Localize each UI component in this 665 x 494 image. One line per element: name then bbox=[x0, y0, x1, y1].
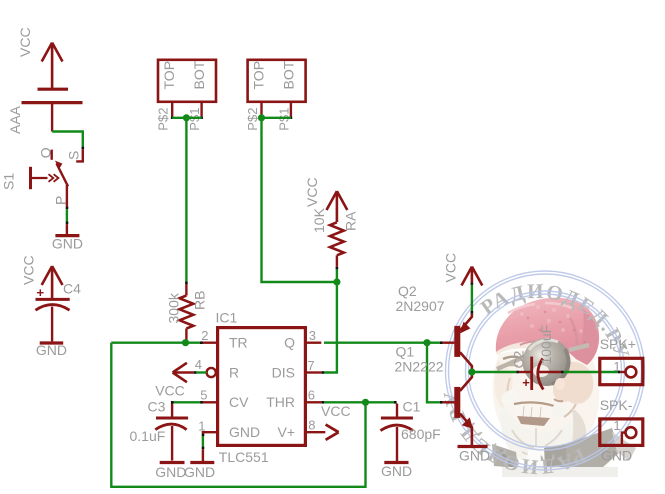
pin 3 Q bbox=[284, 328, 321, 351]
svg-text:AAA: AAA bbox=[7, 105, 23, 134]
shirt bbox=[526, 448, 545, 468]
svg-text:GND: GND bbox=[601, 448, 632, 464]
jacket lapel bbox=[544, 444, 566, 468]
svg-text:100uF: 100uF bbox=[538, 325, 554, 365]
connector SPK- bbox=[600, 397, 643, 464]
wire CV to C3 bbox=[200, 401, 203, 404]
connector J2 TOP/BOT bbox=[245, 60, 306, 131]
svg-text:6: 6 bbox=[308, 388, 315, 403]
right cheek skin bbox=[561, 362, 593, 404]
power VCC (pin 4 arrow left) bbox=[155, 363, 194, 399]
svg-text:IC1: IC1 bbox=[216, 310, 238, 326]
ground (IC1 pin 1) bbox=[184, 463, 215, 481]
svg-text:2: 2 bbox=[201, 328, 208, 343]
switch S1 bbox=[1, 147, 83, 206]
junction J1 bbox=[183, 114, 190, 121]
wire R pin to VCC arrow bbox=[194, 371, 197, 374]
svg-text:+: + bbox=[37, 285, 45, 300]
jacket left bbox=[492, 444, 518, 468]
svg-text:2N2907: 2N2907 bbox=[396, 298, 445, 314]
IC U1 TLC551 body bbox=[216, 310, 306, 466]
junction THR bbox=[362, 399, 369, 406]
svg-text:TR: TR bbox=[229, 335, 248, 351]
svg-text:680pF: 680pF bbox=[401, 426, 441, 442]
svg-text:GND: GND bbox=[184, 464, 215, 480]
transistor Q1 2N2222 bbox=[395, 344, 474, 446]
connector J1 TOP/BOT bbox=[156, 60, 217, 131]
battery AAA bbox=[7, 89, 83, 134]
capacitor C1 680pF bbox=[381, 399, 441, 462]
pin 5 CV bbox=[200, 388, 249, 411]
svg-text:1: 1 bbox=[198, 419, 205, 434]
pin 2 TR bbox=[201, 328, 247, 351]
ground (C4) bbox=[36, 342, 67, 358]
resistor RA 10K bbox=[311, 207, 359, 266]
svg-text:C1: C1 bbox=[403, 399, 421, 415]
pin 6 THR bbox=[266, 388, 321, 411]
transistor Q2 2N2907 bbox=[396, 283, 472, 372]
mustache bbox=[501, 390, 517, 406]
svg-text:Q: Q bbox=[284, 335, 295, 351]
eyepatch sphere bbox=[523, 338, 571, 386]
svg-text:THR: THR bbox=[266, 394, 295, 410]
junction TR/RB bbox=[182, 339, 189, 346]
wire THR net bbox=[324, 401, 396, 403]
svg-text:0.1uF: 0.1uF bbox=[130, 428, 166, 444]
svg-text:RA: RA bbox=[343, 211, 359, 231]
power VCC (pin 8 arrow right) bbox=[321, 403, 351, 440]
wire TR net bbox=[111, 342, 202, 344]
below-ring remnant bbox=[502, 467, 618, 477]
ground (C1) bbox=[381, 463, 412, 480]
wire J2 to RA junction bbox=[262, 118, 337, 282]
svg-text:VCC: VCC bbox=[155, 383, 185, 399]
brow / eye bbox=[503, 357, 521, 359]
wire J2 pins bbox=[260, 116, 263, 119]
wire output to C2 bbox=[472, 371, 516, 373]
svg-text:P$2: P$2 bbox=[156, 108, 171, 131]
ring letters bbox=[457, 298, 619, 460]
left face light bbox=[495, 360, 513, 408]
power VCC (Q2 emitter) bbox=[443, 253, 483, 286]
svg-text:7: 7 bbox=[307, 358, 314, 373]
ground (Q1 emitter) bbox=[458, 447, 491, 464]
wire VCC to Q2 emitter bbox=[471, 282, 474, 285]
svg-text:GND: GND bbox=[155, 464, 186, 480]
wire RA to junction bbox=[336, 267, 339, 270]
junction J2 bbox=[258, 114, 265, 121]
svg-text:VCC: VCC bbox=[21, 255, 37, 285]
svg-text:Q1: Q1 bbox=[396, 344, 415, 360]
svg-text:RB: RB bbox=[192, 291, 208, 310]
beard bbox=[501, 408, 575, 463]
svg-text:P: P bbox=[53, 196, 69, 205]
svg-text:C4: C4 bbox=[63, 281, 81, 297]
resistor RB 300k bbox=[166, 284, 208, 343]
svg-text:S1: S1 bbox=[1, 173, 17, 190]
pin 4 R (bubble) bbox=[195, 357, 239, 381]
svg-text:+: + bbox=[522, 375, 530, 390]
wire TR loop to THR bbox=[111, 343, 365, 487]
svg-text:GND: GND bbox=[52, 236, 83, 252]
svg-text:TOP: TOP bbox=[161, 61, 177, 90]
power VCC (RA) bbox=[304, 177, 347, 222]
junction output node bbox=[468, 368, 475, 375]
svg-text:O: O bbox=[38, 147, 54, 158]
svg-text:10K: 10K bbox=[311, 207, 327, 233]
svg-text:VCC: VCC bbox=[17, 27, 33, 57]
svg-text:TOP: TOP bbox=[251, 61, 267, 90]
svg-text:3: 3 bbox=[309, 328, 316, 343]
wire battery to switch bbox=[52, 132, 83, 147]
svg-text:CV: CV bbox=[229, 394, 249, 410]
svg-text:1: 1 bbox=[613, 418, 620, 433]
upper lip shadow bbox=[514, 402, 554, 406]
ground (C3) bbox=[155, 463, 186, 481]
pin 7 DIS bbox=[272, 358, 322, 381]
svg-text:4: 4 bbox=[195, 357, 202, 372]
svg-text:8: 8 bbox=[308, 418, 315, 433]
svg-text:P$2: P$2 bbox=[245, 108, 260, 131]
svg-text:C3: C3 bbox=[148, 399, 166, 415]
teeth bbox=[515, 405, 553, 418]
power VCC (C4) bbox=[21, 255, 63, 298]
ground (S1) bbox=[52, 236, 83, 252]
junction Q/base bbox=[423, 339, 430, 346]
capacitor C3 0.1uF bbox=[130, 399, 189, 461]
svg-text:S: S bbox=[66, 151, 82, 160]
svg-text:R: R bbox=[229, 364, 239, 380]
svg-text:VCC: VCC bbox=[304, 177, 320, 207]
face base bbox=[493, 349, 599, 456]
pin 1 GND bbox=[198, 419, 260, 441]
connector SPK+ bbox=[600, 336, 643, 385]
svg-text:TLC551: TLC551 bbox=[219, 449, 269, 465]
svg-text:2N2222: 2N2222 bbox=[395, 359, 444, 375]
svg-text:P$1: P$1 bbox=[277, 108, 292, 131]
wire J1 to RB bbox=[185, 118, 187, 282]
wire C2 to SPK+ bbox=[561, 371, 564, 374]
junction RA/DIS bbox=[333, 278, 340, 285]
svg-text:5: 5 bbox=[200, 388, 207, 403]
pin 8 V+ bbox=[277, 418, 325, 441]
svg-text:V+: V+ bbox=[277, 424, 295, 440]
chin/neck shadow right bbox=[570, 408, 586, 452]
bandana bbox=[496, 298, 599, 365]
capacitor C2 100uF bbox=[510, 325, 561, 390]
svg-text:GND: GND bbox=[381, 463, 412, 479]
wire junction to Q2 base bbox=[427, 342, 440, 344]
svg-text:VCC: VCC bbox=[321, 403, 351, 419]
jacket right bbox=[566, 428, 620, 468]
nose bbox=[553, 378, 575, 402]
svg-text:300k: 300k bbox=[166, 292, 182, 323]
watermark logo bbox=[438, 271, 644, 480]
wire Q net bbox=[324, 342, 427, 344]
svg-text:GND: GND bbox=[459, 448, 490, 464]
svg-text:BOT: BOT bbox=[281, 60, 297, 89]
svg-text:VCC: VCC bbox=[443, 253, 459, 283]
rings bbox=[446, 271, 645, 470]
wire junction to DIS bbox=[324, 282, 337, 373]
smile creases bbox=[508, 378, 511, 404]
svg-text:Q2: Q2 bbox=[398, 283, 417, 299]
wire IC GND pin to ground bbox=[202, 433, 205, 436]
mouth dark bbox=[517, 416, 550, 426]
wire junction to Q1 base bbox=[427, 343, 440, 403]
svg-text:GND: GND bbox=[229, 424, 260, 440]
svg-text:BOT: BOT bbox=[191, 60, 207, 89]
capacitor C4 bbox=[36, 281, 82, 342]
svg-text:SPK+: SPK+ bbox=[600, 336, 636, 352]
wire J1 pins bbox=[171, 116, 174, 119]
svg-text:SPK-: SPK- bbox=[600, 397, 633, 413]
eyepatch strap bbox=[497, 357, 524, 369]
svg-text:GND: GND bbox=[36, 342, 67, 358]
power VCC (battery) bbox=[17, 27, 63, 88]
svg-text:DIS: DIS bbox=[272, 364, 295, 380]
svg-text:C2: C2 bbox=[510, 350, 526, 368]
svg-text:1: 1 bbox=[613, 359, 620, 374]
wire switch pole to GND bbox=[66, 207, 69, 210]
